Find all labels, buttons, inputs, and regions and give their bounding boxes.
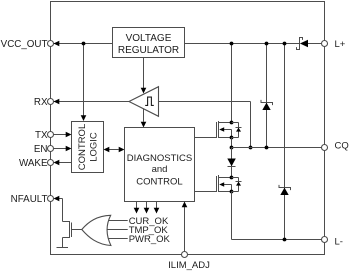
svg-text:CQ: CQ (335, 140, 349, 151)
svg-text:and: and (152, 164, 168, 175)
svg-text:L+: L+ (335, 39, 346, 50)
svg-text:ILIM_ADJ: ILIM_ADJ (168, 260, 210, 271)
svg-text:EN: EN (34, 144, 48, 155)
svg-text:RX: RX (34, 97, 48, 108)
svg-text:CONTROL: CONTROL (136, 176, 182, 187)
svg-text:PWR_OK: PWR_OK (129, 234, 171, 245)
svg-text:VOLTAGE: VOLTAGE (126, 33, 172, 44)
svg-text:CONTROL: CONTROL (77, 124, 88, 170)
svg-text:LOGIC: LOGIC (89, 132, 100, 162)
svg-text:VCC_OUT: VCC_OUT (1, 39, 48, 50)
svg-text:TX: TX (35, 130, 48, 141)
svg-text:L-: L- (335, 236, 343, 247)
svg-text:NFAULT: NFAULT (11, 194, 48, 205)
svg-text:WAKE: WAKE (19, 158, 48, 169)
svg-text:DIAGNOSTICS: DIAGNOSTICS (127, 153, 192, 164)
svg-text:REGULATOR: REGULATOR (118, 45, 179, 56)
